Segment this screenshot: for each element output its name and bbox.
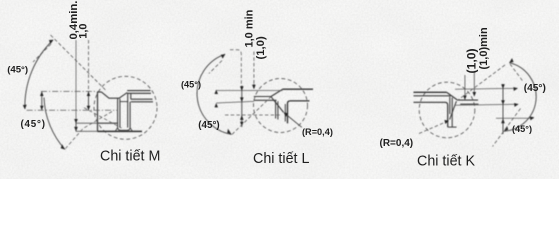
detail M dimension line x=76 (0,4 min.) [75, 40, 77, 119]
paper noise [0, 0, 559, 179]
detail M neck right wall (double) [128, 93, 130, 128]
detail M top surface left segment [97, 91, 102, 93]
detail L chamfer [271, 89, 283, 96]
detail K extension under (1,0)min text [473, 71, 475, 92]
detail L dashed tick from arrow to 45 label [209, 61, 222, 74]
detail L dashed extension y=115 [225, 114, 282, 116]
detail M dashed tick from arrow to 45 label [33, 44, 51, 62]
detail K right extension line y=104.5 [455, 104, 518, 105]
detail L extension under 1,0min text [253, 52, 255, 85]
detail L 45-degree dashed line lower [232, 97, 271, 135]
detail M arc A arrowhead bottom [23, 105, 27, 110]
svg-text:1,0 min: 1,0 min [244, 9, 256, 47]
detail L dim arrow blobs [240, 86, 244, 91]
detail M dim x=76 arrowheads [74, 119, 78, 123]
detail M neck inner top tick [120, 101, 128, 103]
detail M bottom flare feet [115, 128, 132, 131]
detail L flank 45 line [271, 97, 284, 113]
svg-text:(45°): (45°) [21, 119, 46, 130]
detail L boundary circle [254, 79, 308, 133]
detail K arc arrowhead top [509, 58, 513, 63]
detail M V-groove profile [102, 92, 128, 98]
detail K flank line [450, 101, 457, 119]
detail M horizontal extension line y=110.3 [27, 109, 118, 111]
svg-text:Chi tiết M: Chi tiết M [100, 149, 160, 165]
detail M step corner right of neck [131, 93, 153, 102]
svg-text:(45°): (45°) [181, 80, 201, 90]
detail K groove walls [450, 97, 452, 127]
detail M dimension line x=88.5 (1,0) [88, 40, 90, 92]
detail K vertical dimension line x=503 [502, 84, 504, 134]
detail L lower extension line [216, 101, 254, 103]
svg-text:(1,0): (1,0) [255, 36, 267, 59]
detail M horizontal extension line y=91.4 [41, 90, 97, 92]
svg-text:(R=0,4): (R=0,4) [380, 138, 414, 149]
detail L second vertical [284, 104, 286, 122]
svg-text:1,0: 1,0 [77, 24, 89, 39]
detail K 45-degree dashed line lower [493, 109, 521, 147]
detail M dim x=88.5 arrowheads [87, 92, 91, 96]
detail K crest line right [457, 99, 478, 101]
detail L top surface extension line [216, 90, 282, 92]
svg-text:(1,0): (1,0) [464, 48, 478, 73]
detail K radius leader dashed [419, 121, 447, 133]
detail M left edge of part [97, 92, 99, 131]
detail M arc A arrowhead top [49, 40, 54, 44]
detail M dim x=41.8 arrowheads [40, 92, 44, 96]
detail M arc B arrowhead [61, 144, 65, 149]
detail K dashed tick from arrow toward 45 label [510, 64, 524, 82]
detail M neck bottom U [118, 128, 131, 131]
svg-text:(45°): (45°) [7, 64, 28, 75]
detail K chamfer [447, 92, 458, 100]
detail L vertical dimension line x=241.8 with top hook [230, 50, 241, 86]
detail M top surface right double line [127, 91, 151, 94]
detail M neck left wall (double) [118, 98, 120, 128]
detail M dashed diagonal D2 [66, 112, 113, 149]
svg-text:(1,0)min: (1,0)min [478, 27, 490, 69]
detail L thread groove walls [276, 101, 278, 120]
detail K angular arc [504, 63, 536, 132]
detail K right extension line y=118 [496, 117, 534, 119]
detail M washer face upper line [76, 122, 98, 124]
svg-text:(45°): (45°) [524, 83, 546, 94]
detail L radius leader [285, 113, 302, 127]
detail K step surface and fillet [414, 102, 448, 127]
detail L big angular arc [197, 54, 231, 134]
detail L crest line [254, 96, 271, 98]
detail K arc arrowhead bottom [504, 126, 508, 131]
detail L root line [254, 99, 277, 101]
detail K root line right [460, 103, 478, 105]
svg-text:(45°): (45°) [512, 124, 532, 134]
detail M vertical dimension line x=41.8 [41, 92, 43, 111]
svg-text:(45°): (45°) [198, 120, 219, 131]
detail K right extension line y=88.5 [455, 88, 518, 89]
paper blotch layer [0, 0, 559, 179]
detail M dashed diagonal D1 [84, 108, 122, 128]
detail L extension-line end arrows at x=216 [215, 90, 219, 94]
detail L arc arrowhead bottom [227, 129, 231, 135]
detail L inner corner fillet and step surface [288, 101, 310, 124]
detail K extension under (1,0) text [464, 75, 466, 96]
detail K 45-degree dashed line toward part corner [458, 65, 505, 100]
detail L arc arrowhead top [221, 54, 225, 58]
detail K bottom line [448, 126, 457, 128]
detail M angular dimension arc B [44, 98, 65, 150]
detail K boundary circle [419, 82, 475, 138]
detail M 45-degree dashed construction line upper [51, 35, 107, 91]
detail M angular dimension arc A [25, 40, 53, 109]
detail M washer face lower line / bottom [76, 130, 98, 132]
detail K top surface double line [414, 91, 447, 93]
svg-text:(R=0,4): (R=0,4) [302, 127, 333, 137]
detail M boundary circle [94, 76, 157, 139]
svg-text:Chi tiết L: Chi tiết L [253, 151, 309, 167]
svg-text:Chi tiết K: Chi tiết K [417, 154, 475, 170]
detail L top surface [283, 88, 313, 90]
